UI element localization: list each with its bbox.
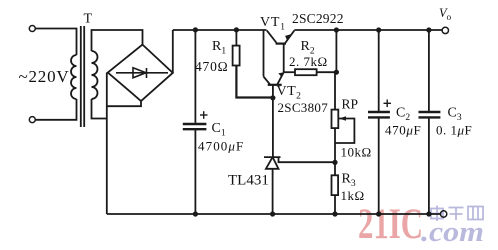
svg-text:0. 1μF: 0. 1μF <box>436 123 472 138</box>
node TL431 anode <box>270 211 275 216</box>
transformer T primary winding <box>71 55 77 99</box>
svg-text:RP: RP <box>342 97 359 112</box>
svg-text:2. 7kΩ: 2. 7kΩ <box>289 54 328 69</box>
wire secondary bottom <box>92 99 107 119</box>
svg-text:2SC3807: 2SC3807 <box>278 100 329 115</box>
resistor R1 <box>233 30 273 98</box>
svg-text:TL431: TL431 <box>228 173 269 189</box>
svg-text:470μF: 470μF <box>385 123 421 138</box>
wire bridge right vertex to top rail <box>172 30 174 73</box>
input terminal bottom-left <box>29 117 35 123</box>
svg-text:.com: .com <box>421 217 484 248</box>
svg-text:R3: R3 <box>342 172 356 190</box>
resistor R2 <box>284 69 337 75</box>
top rail output section <box>294 29 442 31</box>
output terminal bottom <box>440 211 446 217</box>
svg-text:2SC2922: 2SC2922 <box>292 11 344 26</box>
wire L1 raw rail down to VT2 collector <box>263 30 265 77</box>
node R3 bottom <box>332 211 337 216</box>
node C2 bottom <box>376 211 381 216</box>
wire RP branch <box>335 30 336 110</box>
svg-text:C2: C2 <box>396 106 410 124</box>
capacitor C3 <box>419 30 441 214</box>
resistor R3 <box>332 162 339 214</box>
watermark 21IC <box>358 200 423 248</box>
transistor VT1 <box>267 30 295 72</box>
node C2 top <box>376 27 381 32</box>
top rail raw section <box>173 29 267 31</box>
transistor VT2 <box>264 72 284 98</box>
wire bridge left vertex down <box>106 73 108 215</box>
node C1 bottom <box>193 211 198 216</box>
bridge diode <box>116 68 168 78</box>
input terminal top-left <box>29 26 35 32</box>
svg-text:~220V: ~220V <box>19 67 70 86</box>
svg-text:10kΩ: 10kΩ <box>341 145 372 160</box>
transformer core <box>80 26 82 127</box>
label C1 plus <box>200 111 208 119</box>
bottom rail <box>107 213 441 215</box>
svg-text:T: T <box>84 12 93 27</box>
node RP bottom / TL431 ref <box>332 160 337 165</box>
watermark dianziwang characters <box>431 206 483 222</box>
svg-text:Vo: Vo <box>439 6 452 22</box>
node C1 top <box>193 27 198 32</box>
watermark .com <box>421 217 484 248</box>
svg-text:C3: C3 <box>448 106 462 124</box>
potentiometer RP <box>332 110 355 163</box>
node C3 top <box>426 27 431 32</box>
capacitor C1 <box>183 30 207 214</box>
svg-text:VT2: VT2 <box>277 84 302 102</box>
label C2 plus <box>384 100 392 108</box>
svg-text:4700μF: 4700μF <box>198 139 244 154</box>
TL431 shunt regulator <box>264 98 335 214</box>
svg-text:1kΩ: 1kΩ <box>341 188 365 203</box>
wire bridge bottom vertex stub <box>107 101 141 106</box>
wire secondary top to bridge <box>92 30 143 51</box>
node R1 top <box>234 27 239 32</box>
node RP line top <box>334 27 339 32</box>
node C3 bottom <box>426 211 431 216</box>
bridge rectifier diamond <box>108 45 173 101</box>
svg-text:VT1: VT1 <box>260 15 286 33</box>
svg-text:C1: C1 <box>212 121 226 139</box>
node VT2 base <box>270 95 275 100</box>
node R2 right <box>334 70 339 75</box>
transformer secondary winding <box>92 51 98 99</box>
wire primary top <box>35 29 76 56</box>
wire primary bottom <box>35 99 76 120</box>
output terminal Vo <box>442 27 448 33</box>
svg-text:21IC: 21IC <box>358 200 423 248</box>
capacitor C2 <box>368 30 390 214</box>
svg-text:470Ω: 470Ω <box>195 59 228 74</box>
svg-text:R1: R1 <box>212 39 226 57</box>
